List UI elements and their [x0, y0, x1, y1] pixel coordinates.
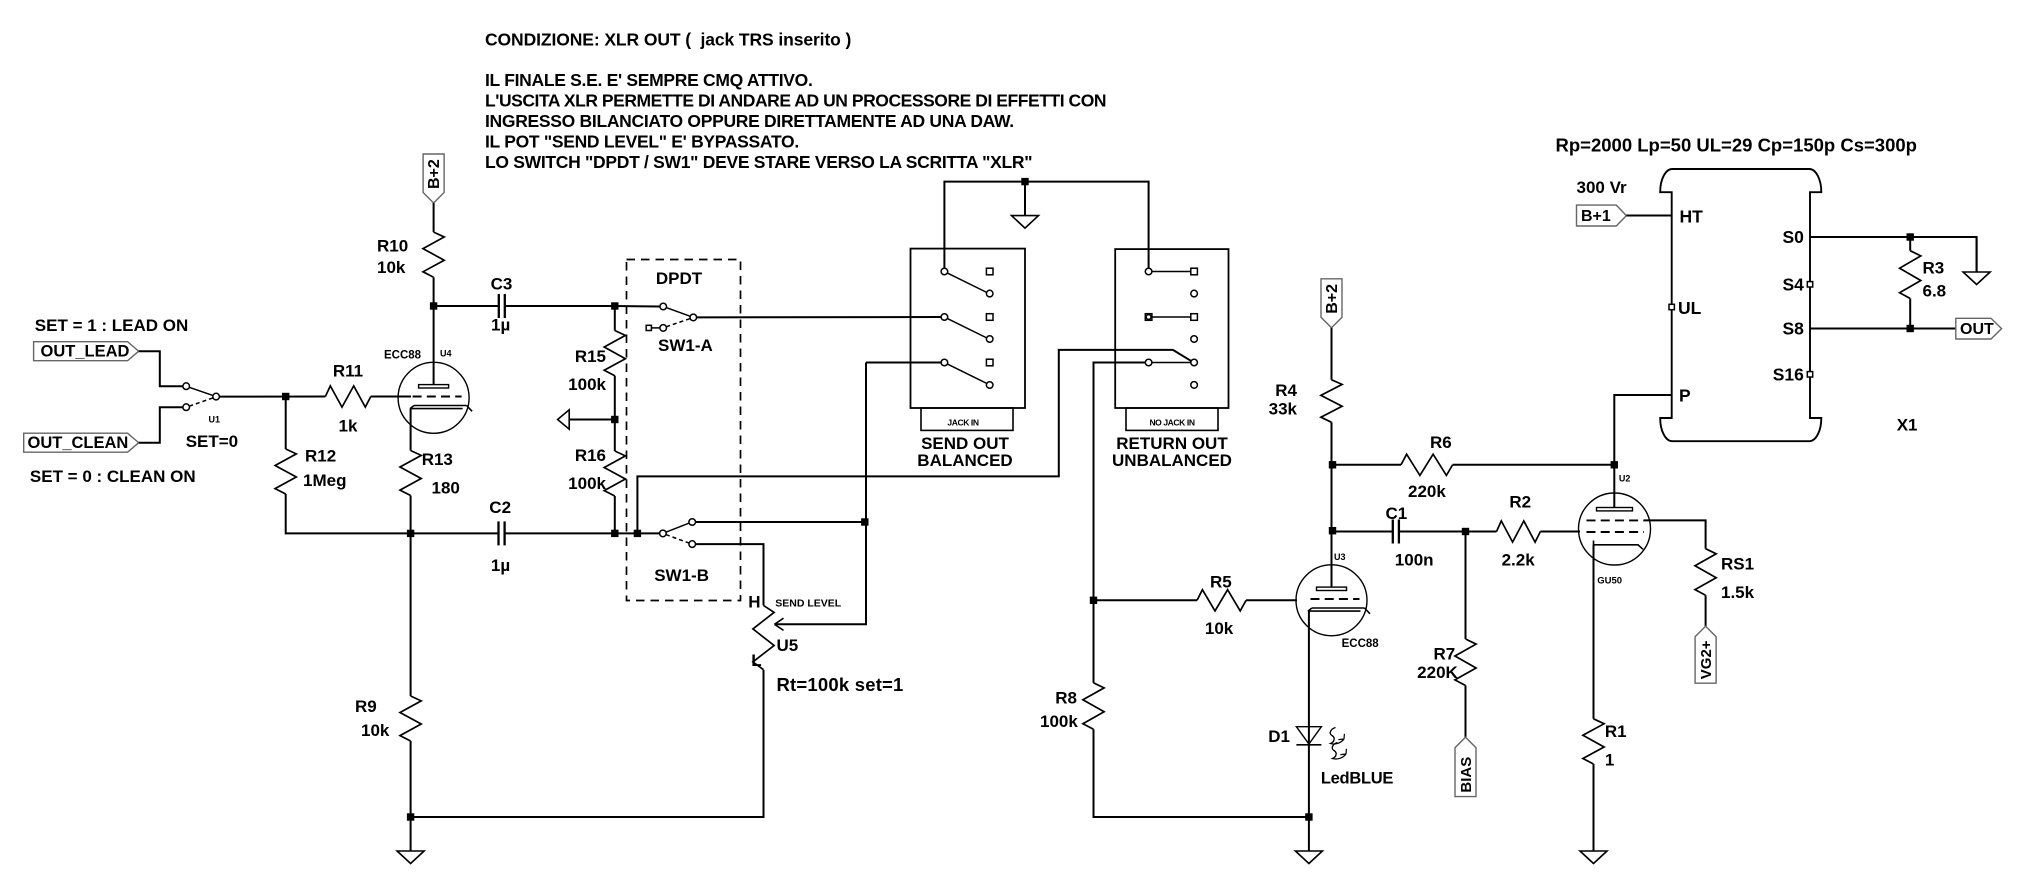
svg-text:U3: U3 — [1334, 552, 1346, 562]
svg-text:SW1-B: SW1-B — [654, 566, 709, 585]
note 300 Vr — [1577, 178, 1627, 197]
resistor R4 33k — [1269, 380, 1342, 423]
flag BIAS — [1455, 737, 1476, 796]
junction C1 node — [1329, 527, 1336, 534]
svg-text:U1: U1 — [209, 415, 221, 425]
svg-text:1µ: 1µ — [491, 556, 510, 575]
resistor R3 6.8 — [1900, 237, 1947, 329]
svg-text:SW1-A: SW1-A — [658, 336, 713, 355]
svg-text:S0: S0 — [1782, 227, 1804, 247]
wire R6 to plate rail — [1453, 464, 1615, 466]
potentiometer U5 SEND LEVEL — [748, 593, 903, 695]
junction R13/R9 bottom rail — [407, 530, 414, 537]
svg-text:S4: S4 — [1782, 274, 1804, 294]
svg-text:6.8: 6.8 — [1923, 282, 1947, 301]
switch SW1-B — [654, 519, 709, 585]
DPDT switch outline box — [627, 260, 741, 601]
flag OUT_CLEAN — [24, 433, 139, 452]
wire R7 to BIAS flag — [1465, 686, 1467, 738]
tube U2 GU50 pentode — [1579, 474, 1651, 587]
ground left — [397, 817, 424, 864]
svg-text:R10: R10 — [377, 237, 408, 256]
capacitor C2 plates and labels — [489, 498, 511, 575]
svg-text:220K: 220K — [1417, 663, 1458, 682]
svg-text:SEND LEVEL: SEND LEVEL — [775, 598, 842, 610]
svg-text:1k: 1k — [339, 417, 358, 436]
svg-text:S16: S16 — [1773, 364, 1804, 384]
wire B+2 to R10 — [433, 203, 435, 232]
note Rp=2000 ... — [1556, 135, 1917, 156]
wire OUT_LEAD to switch U1 — [139, 351, 183, 386]
wire R11 to U4 grid — [371, 396, 411, 398]
svg-text:BALANCED: BALANCED — [917, 451, 1012, 470]
diode D1 LedBLUE — [1268, 727, 1393, 788]
svg-text:X1: X1 — [1897, 416, 1918, 435]
wire U1 common to R11 — [219, 396, 325, 398]
svg-text:ECC88: ECC88 — [1342, 638, 1380, 650]
svg-text:Rt=100k set=1: Rt=100k set=1 — [777, 674, 904, 695]
svg-text:LedBLUE: LedBLUE — [1321, 770, 1393, 788]
wire R2 to U2 grid — [1540, 531, 1580, 533]
svg-text:Rp=2000 Lp=50 UL=29 Cp=150p Cs: Rp=2000 Lp=50 UL=29 Cp=150p Cs=300p — [1556, 135, 1917, 156]
wire pot bottom to ground rail — [411, 670, 764, 817]
svg-text:SET = 1 : LEAD ON: SET = 1 : LEAD ON — [35, 316, 189, 335]
note text CONDIZIONE — [485, 30, 851, 50]
svg-text:L: L — [751, 651, 761, 670]
wire R13 to bottom rail — [410, 496, 412, 534]
note text block — [485, 70, 1106, 172]
svg-text:H: H — [748, 593, 760, 612]
svg-text:100k: 100k — [568, 474, 606, 493]
svg-text:S8: S8 — [1782, 319, 1804, 339]
junction R15/R16 tap — [611, 416, 618, 423]
wire U2 cathode to R1 — [1593, 545, 1595, 719]
resistor R15 100k — [568, 331, 625, 395]
junction R5 node — [1090, 597, 1097, 604]
wire node to C1 — [1332, 531, 1393, 533]
svg-text:R2: R2 — [1509, 492, 1531, 511]
svg-text:1µ: 1µ — [491, 316, 510, 335]
resistor R6 220k — [1332, 433, 1453, 501]
junction wiper rail — [861, 518, 868, 525]
flag OUT — [1956, 318, 2002, 339]
note SET = 1 : LEAD ON — [35, 316, 189, 335]
wire R9 to ground — [410, 741, 412, 817]
tube U4 ECC88 triode — [384, 349, 472, 434]
resistor R2 2.2k — [1497, 492, 1541, 569]
svg-text:SET = 0 : CLEAN ON: SET = 0 : CLEAN ON — [30, 467, 196, 486]
svg-text:U5: U5 — [777, 636, 799, 655]
svg-text:IL FINALE S.E. E' SEMPRE CMQ A: IL FINALE S.E. E' SEMPRE CMQ ATTIVO. — [485, 70, 813, 90]
svg-text:2.2k: 2.2k — [1502, 550, 1536, 569]
svg-text:R12: R12 — [305, 447, 336, 466]
jack J1 SEND OUT BALANCED — [911, 249, 1026, 470]
svg-text:B+2: B+2 — [1324, 284, 1341, 314]
junction R4/R6 node — [1329, 461, 1336, 468]
svg-text:220k: 220k — [1408, 482, 1446, 501]
power flag B+2 left — [423, 154, 444, 203]
wire SEND OUT row1 to ground rail — [944, 182, 1148, 269]
svg-text:180: 180 — [432, 478, 460, 497]
junction ground top — [1021, 178, 1028, 185]
svg-text:L'USCITA XLR PERMETTE DI ANDAR: L'USCITA XLR PERMETTE DI ANDARE AD UN PR… — [485, 91, 1106, 111]
tap arrow — [558, 410, 615, 429]
resistor R11 1k — [325, 362, 370, 436]
svg-text:B+2: B+2 — [426, 159, 443, 189]
switch SW1-A — [646, 303, 713, 355]
resistor R12 1Meg — [275, 447, 346, 495]
svg-text:R8: R8 — [1055, 689, 1077, 708]
svg-text:D1: D1 — [1268, 727, 1290, 746]
wire SW1-A common to SEND OUT jack — [697, 316, 942, 318]
svg-text:10k: 10k — [1205, 619, 1234, 638]
svg-text:BIAS: BIAS — [1458, 757, 1475, 793]
svg-text:OUT_CLEAN: OUT_CLEAN — [28, 434, 129, 452]
wire U2 screen to RS1 — [1644, 520, 1706, 548]
wire R8 to ground rail — [1094, 729, 1309, 817]
wire C1 to R2 — [1399, 531, 1497, 533]
svg-text:100k: 100k — [1040, 712, 1078, 731]
wire rail to R8 — [1093, 600, 1095, 683]
flag VG2+ — [1695, 626, 1716, 683]
resistor R9 10k — [355, 696, 421, 741]
junction SW1-A node — [611, 302, 618, 309]
wire SEND OUT row3 to wiper rail — [866, 362, 941, 364]
svg-text:R13: R13 — [422, 450, 453, 469]
wire S8 to OUT flag — [1810, 328, 1956, 330]
svg-text:DPDT: DPDT — [656, 269, 703, 288]
svg-text:1Meg: 1Meg — [303, 471, 346, 490]
svg-text:OUT_LEAD: OUT_LEAD — [41, 343, 130, 361]
wire R4 to node — [1331, 422, 1333, 465]
wire U3 plate to C1 node — [1331, 465, 1333, 588]
svg-text:RS1: RS1 — [1721, 554, 1754, 573]
svg-text:GU50: GU50 — [1597, 575, 1622, 586]
wire C3 to SW1-A node — [505, 305, 615, 307]
svg-text:1.5k: 1.5k — [1721, 583, 1755, 602]
wire D1 to ground node — [1308, 745, 1310, 817]
capacitor C3 1u — [491, 274, 513, 334]
svg-text:C2: C2 — [489, 498, 511, 517]
svg-text:SET=0: SET=0 — [186, 432, 238, 451]
svg-text:C1: C1 — [1386, 504, 1408, 523]
svg-text:100k: 100k — [568, 375, 606, 394]
wire R5 to U3 grid — [1246, 599, 1297, 601]
svg-text:10k: 10k — [377, 258, 406, 277]
svg-text:R9: R9 — [355, 697, 377, 716]
junction R3 bottom — [1907, 325, 1914, 332]
resistor R13 180 — [400, 450, 460, 497]
tube U3 ECC88 triode — [1296, 552, 1379, 650]
svg-text:U4: U4 — [440, 349, 452, 359]
ground top — [1012, 182, 1039, 229]
wire R10 to plate node — [433, 277, 435, 306]
junction ground node left — [407, 813, 414, 820]
resistor R1 1 — [1583, 719, 1627, 770]
ground R1 — [1580, 817, 1607, 864]
svg-text:R5: R5 — [1210, 573, 1232, 592]
wire SW1-B throw B to pot top — [695, 544, 763, 605]
svg-text:U2: U2 — [1619, 474, 1631, 484]
junction R16 bottom — [611, 530, 618, 537]
wire B+1 to HT — [1626, 215, 1671, 217]
svg-text:B+1: B+1 — [1581, 208, 1611, 225]
wire SW1-B throw A to pot wiper rail — [695, 521, 864, 523]
junction plate rail — [1611, 461, 1618, 468]
svg-text:UL: UL — [1678, 298, 1702, 318]
capacitor C1 100n — [1386, 504, 1434, 569]
svg-text:CONDIZIONE: XLR OUT ( jack TR: CONDIZIONE: XLR OUT ( jack TRS inserito … — [485, 30, 851, 50]
ground D1 — [1295, 817, 1322, 864]
junction D1 ground node — [1305, 813, 1312, 820]
svg-text:R7: R7 — [1433, 645, 1455, 664]
svg-text:R11: R11 — [333, 362, 363, 381]
wire pot wiper to rail — [775, 363, 867, 625]
junction plate node U4 — [430, 302, 437, 309]
svg-text:R4: R4 — [1275, 381, 1297, 400]
junction R3 top — [1907, 233, 1914, 240]
wire node to SW1-A — [615, 305, 660, 308]
svg-text:C3: C3 — [491, 274, 513, 293]
svg-text:R3: R3 — [1923, 259, 1945, 278]
wire tap to R16 — [614, 420, 616, 452]
wire U2 plate to transformer P — [1614, 395, 1671, 508]
wire return jack row3 to triode rail — [1094, 363, 1146, 601]
svg-text:OUT: OUT — [1960, 321, 1994, 338]
wire OUT_CLEAN to switch U1 — [139, 407, 183, 443]
note SET = 0 : CLEAN ON — [30, 467, 196, 486]
wire C2 to SW1-B common — [505, 532, 660, 534]
wire R15 to tap — [614, 376, 616, 420]
svg-text:100n: 100n — [1395, 550, 1434, 569]
svg-text:ECC88: ECC88 — [384, 350, 422, 362]
svg-text:VG2+: VG2+ — [1698, 640, 1715, 679]
label SET=0 — [186, 432, 238, 451]
flag OUT_LEAD — [34, 342, 139, 361]
power flag B+2 right — [1321, 279, 1342, 328]
svg-text:IL POT "SEND LEVEL" E' BYPASSA: IL POT "SEND LEVEL" E' BYPASSATO. — [485, 132, 799, 152]
resistor R16 100k — [568, 446, 625, 496]
svg-text:NO JACK IN: NO JACK IN — [1149, 418, 1194, 428]
wire R12 to bottom rail — [286, 494, 499, 533]
resistor RS1 1.5k — [1695, 549, 1755, 602]
svg-text:R16: R16 — [575, 446, 606, 465]
svg-text:HT: HT — [1680, 207, 1704, 227]
svg-text:UNBALANCED: UNBALANCED — [1112, 451, 1232, 470]
ground S0 — [1963, 238, 1990, 285]
wire junction to R12 — [285, 397, 287, 450]
svg-text:300 Vr: 300 Vr — [1577, 178, 1627, 197]
wire R16 to bottom rail — [614, 496, 616, 533]
svg-text:33k: 33k — [1269, 400, 1298, 419]
wire RS1 to VG2+ flag — [1705, 595, 1707, 626]
resistor R8 100k — [1040, 683, 1104, 731]
wire R1 to ground — [1593, 764, 1595, 817]
svg-text:R1: R1 — [1605, 722, 1627, 741]
resistor R5 10k — [1094, 573, 1247, 638]
resistor R10 10k — [377, 232, 444, 277]
wire bottom rail to R9 — [410, 533, 412, 696]
svg-text:R6: R6 — [1430, 433, 1452, 452]
junction return rail on bottom rail — [634, 530, 641, 537]
svg-text:10k: 10k — [361, 721, 390, 740]
transformer X1 outline — [1660, 169, 1917, 441]
wire U4 plate lead — [433, 306, 435, 385]
wire node to R7 — [1465, 532, 1467, 640]
power flag B+1 — [1577, 205, 1627, 226]
wire plate node to C3 — [434, 305, 499, 307]
wire S0 to R3/ground — [1810, 237, 1977, 272]
svg-text:R15: R15 — [575, 347, 606, 366]
svg-text:JACK IN: JACK IN — [947, 418, 978, 428]
wire node to R15 — [614, 306, 616, 331]
jack J2 RETURN OUT UNBALANCED — [1112, 249, 1232, 470]
switch U1 — [183, 383, 220, 425]
resistor R7 220K — [1417, 639, 1476, 686]
wire U4 cathode to R13 — [410, 409, 412, 451]
svg-text:LO SWITCH "DPDT / SW1" DEVE ST: LO SWITCH "DPDT / SW1" DEVE STARE VERSO … — [485, 152, 1032, 172]
junction R7 node — [1462, 528, 1469, 535]
wire B+2 to R4 — [1331, 328, 1333, 380]
wire U3 cathode to D1 — [1308, 611, 1310, 745]
svg-text:P: P — [1679, 386, 1691, 406]
wire return jack switched contact to SW1-B rail — [637, 350, 1191, 534]
svg-text:1: 1 — [1605, 751, 1614, 770]
svg-text:INGRESSO BILANCIATO OPPURE DIR: INGRESSO BILANCIATO OPPURE DIRETTAMENTE … — [485, 111, 1014, 131]
junction at R11/R12 node — [282, 393, 289, 400]
